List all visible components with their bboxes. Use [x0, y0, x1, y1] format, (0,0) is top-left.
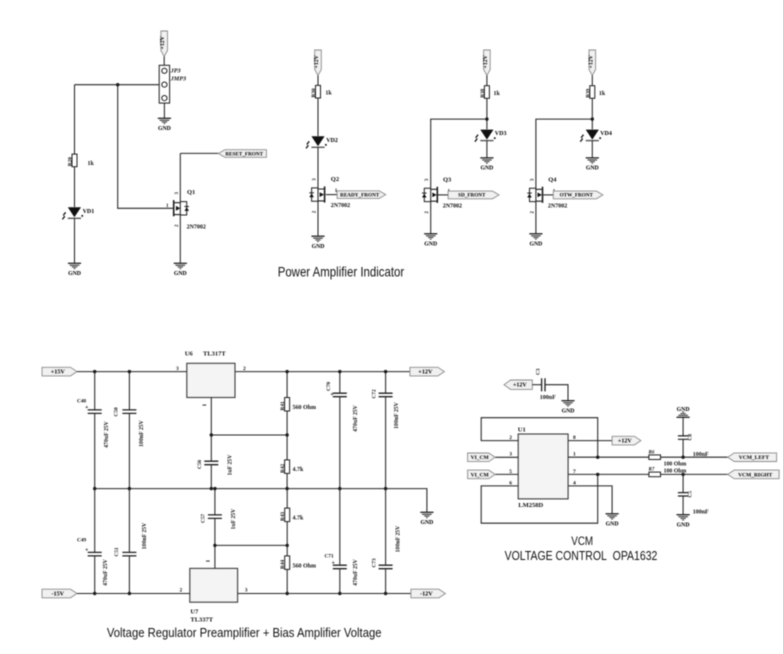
- svg-text:5: 5: [509, 469, 512, 475]
- ground GND under VD3: [480, 158, 493, 172]
- svg-text:3: 3: [245, 588, 248, 594]
- svg-text:VD2: VD2: [326, 138, 338, 144]
- svg-text:-12V: -12V: [420, 591, 433, 598]
- wire U1 pin6 lead + feedback bottom: [481, 474, 598, 523]
- svg-text:6: 6: [509, 480, 512, 486]
- svg-text:R38: R38: [480, 88, 486, 97]
- capacitor C57 plates: [208, 515, 222, 519]
- resistor R7: [649, 472, 661, 477]
- ground GND under Q2: [311, 236, 324, 250]
- wire junction to Q1 gate: [118, 85, 173, 209]
- regulator U6 TL317T: [187, 363, 235, 397]
- svg-text:R43: R43: [280, 512, 286, 521]
- wire bottom rail right: [238, 593, 411, 595]
- svg-text:+12V: +12V: [314, 54, 320, 68]
- svg-text:2: 2: [180, 588, 183, 594]
- svg-text:RESET_FRONT: RESET_FRONT: [225, 151, 263, 157]
- junction node C56 bottom: [210, 487, 213, 490]
- svg-text:TL317T: TL317T: [203, 351, 226, 358]
- svg-text:560 Ohm: 560 Ohm: [293, 564, 317, 570]
- svg-text:VCM: VCM: [571, 536, 593, 548]
- svg-text:VD1: VD1: [83, 209, 95, 215]
- svg-text:C73: C73: [372, 558, 378, 567]
- junction node out2 fb: [596, 473, 599, 476]
- ground GND under Q3: [424, 234, 437, 248]
- wire U1 pin7 output: [568, 473, 649, 475]
- wire node to Q4 drain: [536, 119, 592, 234]
- wire C70 bottom lead: [339, 397, 341, 489]
- wire feedback net upper: [211, 434, 287, 436]
- wire R41-R42 link: [286, 411, 288, 460]
- wire C3 to ground: [545, 385, 568, 401]
- wire U1 pin8 lead: [568, 440, 612, 442]
- wire VD3 to ground: [486, 141, 488, 158]
- wire VD2 to Q2 to GND: [317, 147, 319, 236]
- junction node gate drive: [116, 83, 119, 86]
- wire U1 pin5 lead: [495, 473, 518, 475]
- resistor R42: [285, 460, 290, 474]
- svg-text:7: 7: [573, 469, 576, 475]
- svg-text:C72: C72: [372, 389, 378, 398]
- svg-text:+: +: [332, 560, 336, 566]
- wire C71 top lead: [339, 489, 341, 566]
- junction node C50 bottom: [128, 487, 131, 490]
- svg-text:U1: U1: [518, 427, 526, 434]
- ground GND under VD4: [586, 158, 599, 172]
- transistor Q4 2N7002 MOSFET symbol: [527, 187, 542, 203]
- wire C50 top lead: [128, 372, 130, 410]
- net flag SD_FRONT: [448, 191, 499, 199]
- junction node R42 bottom: [285, 487, 288, 490]
- svg-text:JMP3: JMP3: [170, 76, 186, 83]
- wire JP3 pin3 to ground: [163, 103, 165, 118]
- junction node C73 bottom: [384, 592, 387, 595]
- capacitor C72 plates: [379, 393, 393, 397]
- wire R41 top lead: [286, 372, 288, 398]
- wire flag to R30: [317, 76, 319, 86]
- wire C72 top lead: [385, 372, 387, 394]
- svg-text:C50: C50: [114, 407, 120, 416]
- junction node fb2 right: [286, 544, 289, 547]
- wire R7 to VCM_RIGHT: [661, 473, 728, 475]
- wire top rail right: [235, 371, 410, 373]
- wire C48 top lead: [94, 372, 96, 410]
- wire middle rail: [95, 489, 427, 513]
- wire R38 to node: [486, 98, 488, 129]
- svg-text:4: 4: [573, 480, 576, 486]
- wire R20 to VD1: [74, 167, 76, 207]
- svg-text:R6: R6: [649, 451, 655, 456]
- capacitor C56 plates: [204, 461, 218, 465]
- svg-text:4.7k: 4.7k: [293, 516, 305, 522]
- svg-text:470uF 25V: 470uF 25V: [353, 558, 359, 585]
- svg-text:Q2: Q2: [331, 176, 339, 183]
- net flag RESET_FRONT: [218, 150, 266, 158]
- ground GND under Q4: [529, 234, 542, 248]
- ground GND under C5: [677, 515, 690, 529]
- svg-text:1: 1: [206, 560, 212, 563]
- wire Q3 flag to resistor: [486, 76, 488, 86]
- wire C57 top lead: [214, 489, 216, 515]
- net flag +12V vcc: [612, 436, 641, 445]
- svg-text:+12V: +12V: [618, 439, 632, 445]
- power flag F2 +12V: [314, 50, 321, 76]
- wire U7 pin1 stem: [214, 545, 216, 568]
- net flag +12V out: [410, 367, 445, 376]
- svg-text:U7: U7: [190, 609, 199, 616]
- svg-text:R39: R39: [585, 88, 591, 97]
- wire +12V to C3: [532, 384, 541, 386]
- svg-text:SD_FRONT: SD_FRONT: [458, 193, 486, 199]
- svg-text:100nF 25V: 100nF 25V: [139, 419, 145, 446]
- svg-text:2N7002: 2N7002: [443, 204, 462, 210]
- resistor R38: [484, 86, 489, 99]
- ground GND under Q1: [174, 263, 187, 277]
- svg-text:470uF 25V: 470uF 25V: [353, 404, 359, 431]
- junction node C51 bottom: [128, 592, 131, 595]
- capacitor C48 plates: [88, 410, 102, 414]
- svg-text:1uF 25V: 1uF 25V: [231, 508, 237, 530]
- power flag F_Q3 +12V: [483, 50, 490, 76]
- wire rail down to R20: [74, 85, 76, 154]
- op-amp U1 LM258D: [518, 434, 568, 499]
- transistor Q2 2N7002 MOSFET symbol: [309, 186, 324, 202]
- svg-text:U6: U6: [185, 351, 194, 358]
- wire C72 bottom lead: [385, 397, 387, 489]
- net flag VCM_RIGHT: [728, 470, 779, 479]
- net flag VI_CM b: [468, 470, 496, 479]
- connector JP3 3-pin header: [159, 65, 169, 103]
- svg-text:100nF: 100nF: [693, 510, 709, 516]
- svg-text:+12V: +12V: [513, 383, 527, 389]
- junction node C72 top: [384, 370, 387, 373]
- svg-text:+12V: +12V: [588, 54, 594, 68]
- net flag -15V: [42, 589, 77, 598]
- junction node C70 top: [338, 370, 341, 373]
- junction node C72 bottom: [384, 487, 387, 490]
- LED VD2 (VD2): [306, 136, 327, 148]
- capacitor C49 plates: [88, 552, 102, 556]
- junction node vcm right: [681, 473, 684, 476]
- svg-text:Q3: Q3: [443, 176, 452, 183]
- svg-text:R30: R30: [311, 88, 317, 97]
- wire C50 bottom lead: [128, 413, 130, 488]
- junction node C48 bottom: [93, 487, 96, 490]
- svg-text:VCM_LEFT: VCM_LEFT: [739, 455, 770, 461]
- capacitor C8 100nF: [678, 436, 688, 439]
- svg-text:100nF 25V: 100nF 25V: [396, 525, 402, 552]
- svg-text:C48: C48: [77, 399, 86, 405]
- wire top rail left: [77, 371, 187, 373]
- wire U1 pin4 lead: [568, 486, 612, 514]
- wire U1 pin2 lead + feedback top: [481, 418, 598, 458]
- ground GND above C8 (inverted): [677, 407, 690, 418]
- wire R39 to node: [591, 98, 593, 129]
- svg-text:1uF 25V: 1uF 25V: [228, 454, 234, 476]
- svg-text:3: 3: [176, 366, 179, 372]
- svg-text:2N7002: 2N7002: [187, 224, 206, 230]
- wire C5 to ground: [682, 496, 684, 515]
- svg-text:1k: 1k: [599, 91, 606, 97]
- net flag +15V: [42, 367, 77, 376]
- wire C49 top lead: [94, 489, 96, 553]
- wire Q1 drain riser: [179, 153, 181, 263]
- wire flag to JP3: [163, 57, 165, 66]
- resistor R20: [72, 154, 77, 167]
- svg-text:470uF 25V: 470uF 25V: [104, 420, 110, 447]
- svg-text:+: +: [85, 547, 89, 553]
- wire C49 bottom lead: [94, 556, 96, 594]
- resistor R43: [285, 508, 290, 521]
- svg-text:Power Amplifier Indicator: Power Amplifier Indicator: [278, 263, 405, 279]
- junction node C50 top: [128, 370, 131, 373]
- svg-text:C5: C5: [688, 491, 694, 498]
- svg-text:VD3: VD3: [495, 131, 507, 137]
- wire U6 pin1 stem: [210, 398, 212, 436]
- svg-text:+12V: +12V: [160, 35, 166, 49]
- capacitor C50 plates: [122, 410, 136, 414]
- LED VD4 (VD4): [580, 130, 601, 142]
- wire Q2 gate lead: [326, 194, 337, 196]
- power flag F_Q4 +12V: [588, 50, 595, 76]
- wire R6 to VCM_LEFT: [661, 456, 728, 458]
- ground GND U1 pin4: [606, 514, 619, 528]
- net flag +12V vcm in: [504, 380, 532, 389]
- svg-text:100nF: 100nF: [540, 395, 556, 401]
- svg-text:+: +: [85, 405, 89, 411]
- resistor R6: [649, 455, 661, 460]
- svg-text:2N7002: 2N7002: [331, 203, 350, 209]
- wire C48 bottom lead: [94, 413, 96, 488]
- wire Q3 gate lead: [438, 194, 448, 196]
- svg-text:100nF 25V: 100nF 25V: [142, 522, 148, 549]
- wire C8 to node: [682, 439, 684, 457]
- junction node R44 bottom: [286, 592, 289, 595]
- resistor R44: [285, 556, 290, 570]
- svg-text:2: 2: [243, 366, 246, 372]
- wire C70 top lead: [339, 372, 341, 394]
- junction node out1 fb: [596, 456, 599, 459]
- resistor R39: [590, 86, 595, 99]
- svg-text:C51: C51: [114, 547, 120, 556]
- wire C73 bottom lead: [385, 569, 387, 594]
- svg-text:C70: C70: [326, 382, 332, 391]
- wire C57 bottom lead: [214, 518, 216, 545]
- svg-text:+15V: +15V: [51, 369, 66, 376]
- resistor R30: [316, 85, 321, 98]
- wire Q4 flag to resistor: [591, 76, 593, 86]
- capacitor C51 plates: [122, 552, 136, 556]
- junction node R41 top: [285, 370, 288, 373]
- wire VD1 to ground: [74, 218, 76, 263]
- junction node C49 bottom: [93, 592, 96, 595]
- junction node fb2 left: [213, 544, 216, 547]
- wire C56 bottom lead: [210, 465, 212, 489]
- svg-text:1k: 1k: [494, 91, 501, 97]
- capacitor C73 plates: [379, 565, 393, 569]
- wire bottom rail left: [77, 593, 190, 595]
- wire drain to RESET_FRONT: [180, 152, 218, 154]
- ground GND under VD1: [68, 263, 81, 277]
- wire U1 pin1 output: [568, 456, 649, 458]
- svg-text:C3: C3: [536, 368, 542, 375]
- svg-text:C8: C8: [688, 434, 694, 441]
- svg-text:+12V: +12V: [483, 54, 489, 68]
- svg-text:1k: 1k: [88, 161, 95, 167]
- svg-text:3: 3: [509, 452, 512, 458]
- wire C56 top lead: [210, 435, 212, 461]
- svg-text:R44: R44: [280, 560, 286, 569]
- junction node C57 top: [213, 487, 216, 490]
- net flag VI_CM a: [468, 453, 496, 462]
- svg-text:100nF 25V: 100nF 25V: [394, 401, 400, 428]
- svg-text:8: 8: [573, 435, 576, 441]
- svg-text:JP3: JP3: [170, 68, 181, 75]
- junction node vcm left: [681, 456, 684, 459]
- svg-text:VI_CM: VI_CM: [471, 472, 490, 478]
- junction node fb1 right: [285, 433, 288, 436]
- capacitor C70 plates: [333, 393, 347, 397]
- junction node VD4: [591, 117, 594, 120]
- junction node C70 bottom: [338, 487, 341, 490]
- wire R43 top lead: [286, 489, 288, 509]
- svg-text:Q1: Q1: [187, 189, 195, 196]
- net flag -12V out: [411, 589, 446, 598]
- svg-text:R7: R7: [649, 468, 655, 473]
- svg-text:-15V: -15V: [51, 591, 64, 598]
- wire node to C5: [682, 474, 684, 492]
- svg-text:100nF: 100nF: [693, 452, 709, 458]
- wire Q4 gate lead: [543, 194, 553, 196]
- wire feedback net lower: [215, 544, 287, 546]
- ground GND mid rail: [420, 512, 433, 526]
- wire R30 to VD2: [317, 98, 319, 136]
- LED VD1 (VD1): [62, 207, 83, 219]
- transistor Q1 2N7002 MOSFET symbol: [174, 200, 189, 216]
- svg-text:Q4: Q4: [548, 176, 557, 183]
- wire R44 bottom lead: [286, 569, 288, 593]
- junction node VD3: [485, 117, 488, 120]
- svg-text:1: 1: [202, 404, 208, 407]
- svg-text:+12V: +12V: [418, 369, 433, 376]
- svg-text:C56: C56: [197, 460, 203, 469]
- svg-text:VCM_RIGHT: VCM_RIGHT: [738, 472, 773, 478]
- junction node fb1 left: [210, 433, 213, 436]
- wire node to Q3 drain: [431, 119, 487, 234]
- regulator U7 TL337T: [190, 568, 238, 602]
- svg-text:1k: 1k: [325, 91, 332, 97]
- svg-text:C57: C57: [201, 514, 207, 523]
- svg-text:1: 1: [573, 452, 576, 458]
- svg-text:LM258D: LM258D: [518, 502, 543, 509]
- svg-text:100 Ohm: 100 Ohm: [664, 462, 687, 468]
- junction node C71 bottom: [338, 592, 341, 595]
- svg-text:C71: C71: [325, 554, 334, 560]
- ground GND after C3: [561, 401, 574, 415]
- wire gnd to C8: [682, 417, 684, 436]
- svg-text:R42: R42: [280, 464, 286, 473]
- svg-text:2: 2: [509, 435, 512, 441]
- svg-text:TL337T: TL337T: [190, 617, 213, 624]
- capacitor C5 100nF: [678, 493, 688, 496]
- net flag READY_FRONT: [337, 191, 386, 199]
- wire C73 top lead: [385, 489, 387, 566]
- junction node C48 top: [93, 370, 96, 373]
- net flag OTW_FRONT: [553, 191, 603, 199]
- capacitor C3 100nF: [542, 378, 545, 391]
- LED VD3 (VD3): [475, 130, 496, 142]
- svg-text:VD4: VD4: [600, 131, 612, 137]
- capacitor C71 plates: [333, 565, 347, 569]
- svg-text:OTW_FRONT: OTW_FRONT: [560, 193, 594, 199]
- wire R42 bottom lead: [286, 473, 288, 488]
- svg-text:2N7002: 2N7002: [548, 204, 567, 210]
- wire C51 bottom lead: [128, 556, 130, 594]
- svg-text:C49: C49: [77, 538, 86, 544]
- net flag VCM_LEFT: [728, 453, 777, 462]
- power flag F1 +12V: [160, 31, 167, 57]
- wire C71 bottom lead: [339, 569, 341, 594]
- svg-text:VOLTAGE CONTROL OPA1632: VOLTAGE CONTROL OPA1632: [505, 548, 658, 563]
- wire C51 top lead: [128, 489, 130, 553]
- svg-text:470uF 25V: 470uF 25V: [103, 558, 109, 585]
- svg-text:R20: R20: [68, 157, 74, 166]
- wire R43-R44 link: [286, 522, 288, 556]
- svg-text:4.7k: 4.7k: [293, 467, 305, 473]
- transistor Q3 2N7002 MOSFET symbol: [422, 187, 437, 203]
- wire JP3 pin2 left rail: [75, 84, 160, 86]
- svg-text:R41: R41: [280, 401, 286, 410]
- svg-text:+: +: [330, 392, 334, 398]
- svg-text:560 Ohm: 560 Ohm: [293, 405, 317, 411]
- wire U1 pin3 lead: [495, 456, 518, 458]
- svg-text:READY_FRONT: READY_FRONT: [340, 192, 380, 198]
- svg-text:Voltage Regulator Preamplifier: Voltage Regulator Preamplifier + Bias Am…: [107, 625, 382, 640]
- resistor R41: [285, 398, 290, 412]
- ground GND under JP3: [158, 118, 171, 132]
- wire VD4 to ground: [591, 141, 593, 158]
- svg-text:VI_CM: VI_CM: [471, 455, 490, 461]
